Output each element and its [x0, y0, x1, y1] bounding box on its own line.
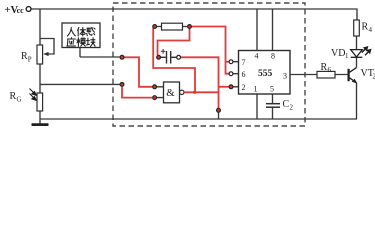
svg-text:1: 1 [345, 52, 349, 60]
svg-text:1: 1 [254, 85, 258, 94]
svg-text:cc: cc [17, 6, 25, 15]
svg-text:&: & [166, 87, 175, 99]
svg-text:555: 555 [258, 69, 273, 79]
svg-text:3: 3 [283, 72, 287, 81]
svg-text:2: 2 [290, 104, 294, 112]
svg-text:7: 7 [242, 58, 246, 67]
svg-text:R: R [10, 91, 17, 102]
svg-text:6: 6 [328, 66, 332, 74]
svg-text:R: R [321, 62, 328, 73]
svg-text:R: R [362, 22, 369, 33]
svg-text:4: 4 [255, 52, 259, 61]
svg-text:8: 8 [271, 52, 275, 61]
svg-text:C: C [283, 99, 290, 110]
svg-text:4: 4 [369, 26, 373, 34]
svg-text:5: 5 [270, 85, 274, 94]
svg-text:P: P [28, 56, 32, 64]
svg-text:2: 2 [242, 83, 246, 92]
svg-text:6: 6 [242, 70, 246, 79]
svg-text:VD: VD [331, 48, 345, 59]
svg-text:G: G [17, 96, 22, 104]
